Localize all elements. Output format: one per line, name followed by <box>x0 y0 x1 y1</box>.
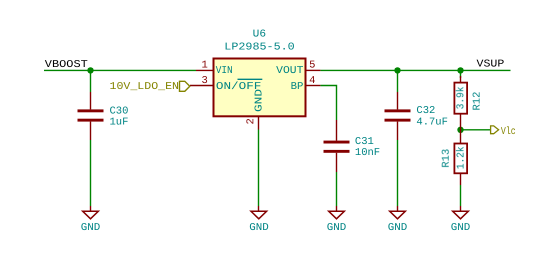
svg-text:3.9k: 3.9k <box>455 87 467 110</box>
svg-text:5: 5 <box>309 59 315 71</box>
svg-text:C30: C30 <box>110 105 129 117</box>
svg-text:VSUP: VSUP <box>477 59 505 71</box>
svg-text:4.7uF: 4.7uF <box>416 117 448 129</box>
svg-text:GND: GND <box>388 222 408 234</box>
svg-text:C32: C32 <box>416 105 435 117</box>
svg-text:GND: GND <box>249 222 269 234</box>
svg-text:VIN: VIN <box>216 65 233 77</box>
svg-text:GND: GND <box>327 222 347 234</box>
svg-text:2: 2 <box>245 118 257 124</box>
svg-text:1uF: 1uF <box>110 117 129 129</box>
svg-text:R12: R12 <box>472 92 484 111</box>
svg-text:3: 3 <box>202 75 208 87</box>
svg-text:GND: GND <box>451 222 471 234</box>
svg-text:1.2k: 1.2k <box>456 146 468 169</box>
svg-text:VBOOST: VBOOST <box>45 59 88 71</box>
svg-text:VOUT: VOUT <box>276 65 303 77</box>
svg-text:R13: R13 <box>441 149 453 168</box>
svg-text:GND: GND <box>81 222 101 234</box>
svg-text:1: 1 <box>202 60 208 72</box>
svg-text:4: 4 <box>309 75 315 87</box>
svg-text:U6: U6 <box>253 29 266 41</box>
svg-text:C31: C31 <box>355 136 374 148</box>
svg-text:BP: BP <box>291 81 304 93</box>
svg-text:10V_LDO_EN: 10V_LDO_EN <box>110 81 180 93</box>
svg-text:GND: GND <box>254 89 266 112</box>
svg-text:Vlc: Vlc <box>501 126 516 138</box>
svg-text:LP2985-5.0: LP2985-5.0 <box>224 42 294 54</box>
svg-text:10nF: 10nF <box>355 147 380 159</box>
